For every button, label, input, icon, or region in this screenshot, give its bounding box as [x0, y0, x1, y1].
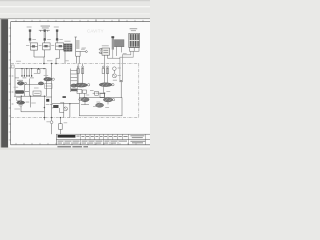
- riser to fan F: [45, 69, 47, 78]
- micro annotation labels: [14, 39, 127, 123]
- terminal bus TB1: [15, 68, 46, 70]
- buzzer labels: [118, 67, 121, 70]
- heater element HTR1 (hatched block): [64, 44, 72, 51]
- enclosure internal wires: [81, 101, 108, 105]
- M2 sub box: [100, 94, 104, 98]
- viewer canvas dark sidebar: [0, 19, 8, 147]
- M2 junction: [104, 92, 105, 93]
- motor M2 capacitors: [102, 69, 109, 74]
- node a: [43, 63, 45, 65]
- CT label: [50, 103, 53, 106]
- bus2 nodes: [21, 96, 45, 97]
- SW2 label: [90, 89, 94, 92]
- fuse F3 label: [54, 26, 59, 29]
- wire B down: [43, 96, 45, 117]
- dark contact block CT: [53, 105, 58, 108]
- wire to title block left: [51, 104, 53, 135]
- lower bus 2: [14, 95, 46, 97]
- inline fuse on bus: [37, 69, 40, 73]
- wire relay K2 drop: [43, 50, 46, 57]
- power feed bus: [39, 30, 50, 32]
- convection motor CM1 (hatched oval): [79, 97, 89, 101]
- caption text below frame: [57, 146, 88, 147]
- wire FM2 down: [46, 81, 48, 96]
- cabinet boundary dash-dot right vertical: [138, 64, 140, 118]
- limit switch boxes under M1: [77, 90, 87, 98]
- fan motor FM1 (hatched oval): [17, 82, 26, 86]
- control box D: [33, 91, 41, 96]
- wire elbow relay K3: [56, 50, 60, 64]
- resistor R1 on drop wire: [59, 118, 63, 135]
- wire from FM1: [24, 84, 44, 86]
- thermostat base box: [76, 52, 80, 57]
- node at boundary B: [44, 117, 45, 118]
- harness staircase (double line): [120, 51, 133, 80]
- heater lead down: [64, 51, 66, 63]
- connector J1 (striped terminal block): [129, 33, 140, 47]
- zone letter marks: [12, 76, 14, 105]
- motor M1 pin circles: [77, 64, 83, 68]
- door switch ladder rails: [71, 69, 78, 93]
- M2 lower wires: [96, 87, 105, 98]
- wire below harness: [120, 82, 122, 98]
- wire elbow relay K1: [34, 50, 44, 57]
- frame border bottom: [11, 144, 151, 146]
- bus junction nodes: [21, 68, 44, 69]
- lower bus 3: [52, 103, 64, 105]
- heater label: [64, 40, 70, 43]
- motor M1 capacitors: [77, 69, 84, 74]
- thermostat stem: [75, 37, 77, 52]
- wire CT down: [60, 108, 64, 113]
- label MAIN POWER text: [41, 25, 50, 28]
- DH label: [25, 90, 29, 93]
- fan motor FM1 label: [17, 79, 23, 82]
- cabinet boundary dash-dot upper: [11, 63, 139, 65]
- frame zone ticks top: [16, 19, 143, 21]
- motor M2 stub wires: [102, 55, 120, 83]
- controller pins: [99, 48, 102, 53]
- node left drop: [51, 117, 52, 118]
- turntable motor TM1 (hatched oval): [96, 103, 104, 107]
- dark relay K4: [46, 99, 49, 102]
- connector pin tips: [21, 75, 32, 77]
- title block outline: [56, 134, 150, 145]
- controller label: [102, 44, 109, 47]
- node d: [69, 103, 70, 104]
- mid feeder wire: [51, 64, 53, 104]
- svg-text:CAVITY: CAVITY: [87, 29, 104, 34]
- drop wire c2: [63, 102, 65, 117]
- node on wire B: [44, 107, 45, 108]
- fuse F1: [29, 29, 31, 43]
- connector J1 label: [130, 27, 138, 30]
- application toolbar background: [0, 0, 150, 19]
- transformer leads: [117, 47, 122, 57]
- pump P1 label: [26, 101, 30, 104]
- connector pin drops (comb): [22, 69, 32, 75]
- cabinet boundary dash-dot lower: [11, 117, 139, 119]
- title block header dark bar: [58, 135, 76, 138]
- interlock box SW2: [93, 91, 99, 95]
- connector J1 shell lower: [129, 48, 139, 52]
- fuse F2: [44, 29, 46, 43]
- relay K2: [43, 43, 50, 50]
- wire CT left: [52, 107, 54, 109]
- small dark blob S: [63, 96, 66, 98]
- small box E: [17, 97, 21, 100]
- title block cell separators upper: [81, 134, 146, 145]
- harness foot: [119, 80, 122, 82]
- wire P1 down: [21, 106, 44, 111]
- title block cell separators lower: [64, 140, 118, 145]
- frame border top: [11, 21, 151, 23]
- small relay blob RB: [38, 82, 43, 85]
- title block small texts upper row: [76, 136, 127, 137]
- left margin terminal text: [11, 65, 14, 68]
- frame zone ticks bottom: [16, 143, 136, 145]
- door switch dark band: [71, 89, 77, 92]
- fuse F3: [56, 29, 58, 43]
- buzzer BZ1: [113, 67, 117, 73]
- pump P1 (hatched oval): [17, 101, 25, 106]
- bottom status strip: [0, 148, 150, 151]
- frame zone ticks left: [9, 28, 11, 140]
- node right drop: [60, 117, 61, 118]
- wire P1 feed: [20, 96, 22, 101]
- pin label boxes: [15, 76, 34, 79]
- meter symbol on drop wire: [50, 121, 53, 124]
- bus 4: [64, 103, 79, 105]
- stub below boundary: [43, 118, 45, 121]
- frame border left: [10, 22, 12, 145]
- node mid feeder: [51, 63, 52, 64]
- title block drawing title text: [130, 135, 145, 143]
- relay K3: [56, 43, 64, 50]
- node b: [55, 63, 57, 65]
- riser wire c: [30, 96, 32, 107]
- harness riser (double line): [112, 38, 114, 50]
- riser wire a: [24, 85, 26, 96]
- buzzer BZ2: [112, 74, 116, 78]
- convection motor CM2 (hatched oval): [103, 98, 114, 102]
- thermostat body (grey slab): [76, 40, 79, 49]
- motor M1 risers: [78, 68, 83, 84]
- door switch oval: [71, 84, 77, 87]
- controller module A1: [102, 48, 110, 55]
- page (white sheet): [8, 19, 150, 147]
- lamp L2: [64, 107, 68, 111]
- harness riser cap: [111, 36, 114, 38]
- cavity enclosure outline: [79, 98, 122, 116]
- defrost heater block DH (dark blob): [15, 90, 24, 94]
- riser wire b: [29, 79, 31, 97]
- fan motor FM2 (hatched oval): [44, 77, 55, 81]
- fan FM2 spec box: [45, 84, 52, 89]
- switch S1 wire: [77, 51, 88, 64]
- drop wire d: [69, 104, 71, 118]
- motor M2 (hatched oval): [99, 83, 114, 87]
- transformer T1 (grey block): [114, 40, 124, 47]
- title block small texts lower row: [58, 141, 127, 144]
- relay K1: [31, 43, 38, 50]
- fuse F1 label: [27, 26, 32, 29]
- left feeder wire: [14, 69, 16, 97]
- wire drop to boundary a: [43, 57, 45, 64]
- motor M1 (hatched oval): [75, 83, 90, 87]
